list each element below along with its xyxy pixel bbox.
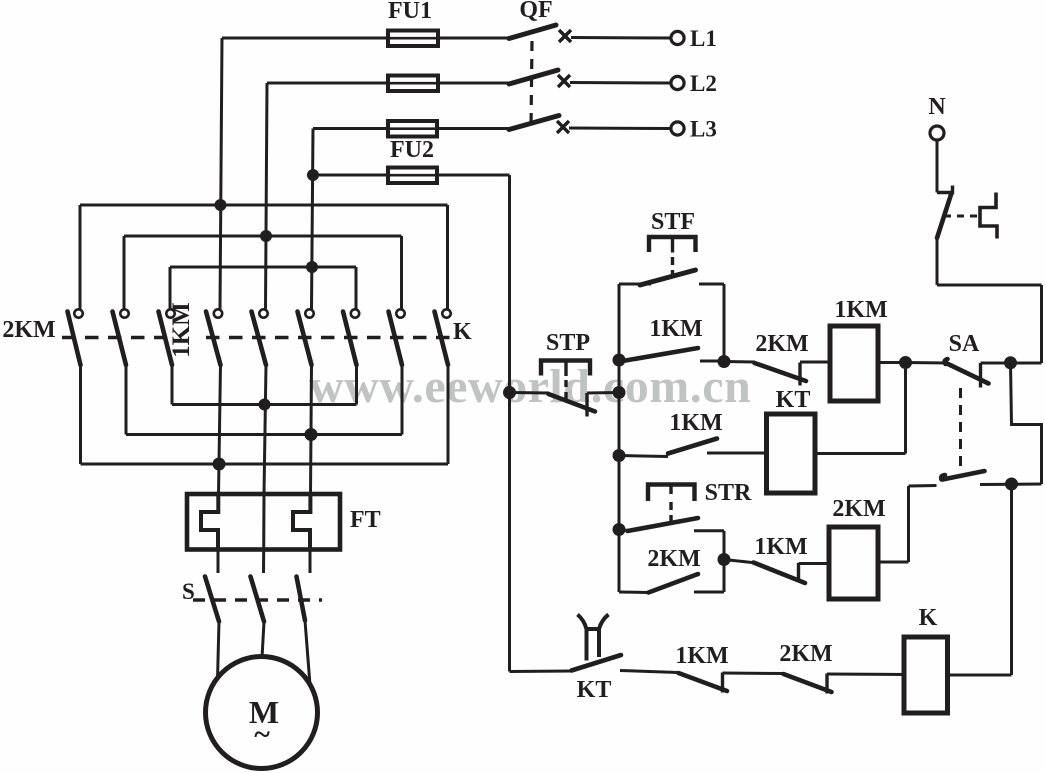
wire line U below FT (217, 550, 220, 574)
wire to 1KM coil (800, 361, 830, 364)
contactor 2KM pole1 (68, 309, 83, 365)
wire N down (936, 140, 939, 193)
svg-text:1KM: 1KM (675, 643, 728, 669)
contactor K pole2 (389, 309, 405, 365)
svg-text:K: K (919, 605, 938, 631)
contactor 2KM pole2 (113, 309, 129, 365)
switch SA pole1 blade (945, 359, 989, 384)
wire STF branch right vertical (723, 284, 726, 362)
switch S pole3 blade (297, 577, 306, 621)
contact 2KM NC blade (K row) (784, 674, 832, 692)
wire phase A vertical upper (220, 38, 222, 309)
wire main row stub after 1KM (700, 360, 724, 363)
contact 1KM NO blade (KT row) (668, 439, 717, 454)
fuse FU1 pole2 (388, 76, 438, 92)
contactor 1KM pole2 (252, 309, 268, 365)
contact KT delayed blade (572, 655, 622, 671)
node STP tap on left rail (503, 386, 516, 399)
wire outer box bottom rail (81, 463, 449, 466)
fuse FU1 pole3 (388, 121, 437, 137)
svg-text:2KM: 2KM (832, 496, 885, 522)
wire L3 to terminal (569, 127, 671, 131)
svg-text:STP: STP (546, 330, 590, 356)
contact 1KM NC interlock stop bar (797, 563, 800, 582)
switch N linkage dashed (944, 215, 978, 218)
wire FU2 row from phase C (313, 174, 387, 177)
wire phase B vertical upper (266, 83, 268, 309)
svg-text:QF: QF (519, 0, 552, 23)
wire SA pole2 right (980, 483, 1042, 487)
node outer rail on line U (213, 458, 226, 471)
wire 2KM pole2 lower (125, 365, 128, 435)
wire KT riser to main row (904, 363, 907, 454)
wire SA pole2 left (909, 484, 937, 488)
svg-text:STF: STF (651, 209, 695, 235)
switch S linkage dashed (193, 598, 322, 601)
svg-text:FU2: FU2 (390, 137, 434, 163)
wire S pole2 to motor (262, 622, 264, 659)
node bus STR row (613, 523, 626, 536)
wire L3 fuse to QF (437, 127, 510, 130)
svg-text:~: ~ (254, 718, 270, 751)
wire 1KM coil to SA (878, 361, 906, 364)
svg-text:K: K (453, 319, 472, 345)
svg-text:STR: STR (705, 480, 752, 506)
motor M circle (206, 657, 318, 769)
button STP NC stop bar (585, 393, 588, 417)
button STR cap (648, 485, 695, 502)
svg-text:www.eeworld.com.cn: www.eeworld.com.cn (309, 360, 751, 413)
node FU2 tap on phase C (307, 169, 319, 181)
button STF plunger solid (671, 239, 674, 253)
svg-text:1KM: 1KM (834, 297, 887, 323)
node middle rail on line W (305, 428, 318, 441)
wire S pole3 to motor (305, 621, 310, 686)
contactor linkage dashed right run (206, 336, 452, 340)
wire 2KM self-hold right vertical (723, 560, 726, 593)
wire KT row from bus (619, 456, 668, 457)
svg-text:SA: SA (949, 331, 980, 357)
wire outer box left edge (79, 205, 82, 309)
FT heater element left (201, 494, 218, 550)
wire control bus vertical (618, 284, 621, 592)
contactor 1KM pole1 (206, 309, 222, 365)
wire L1 fuse to QF (438, 37, 510, 40)
wire K pole1 lower (355, 365, 358, 405)
wire K pole3 lower (447, 365, 450, 464)
button STR NO blade (628, 518, 699, 531)
contact 1KM NC stop bar (K row) (721, 673, 724, 693)
svg-text:S: S (182, 579, 195, 604)
wire 2KM pole3 lower (171, 365, 174, 405)
fuse FU2 (388, 168, 437, 184)
node main row STF join (718, 355, 731, 368)
svg-text:1KM: 1KM (649, 316, 702, 342)
switch S pole2 blade (251, 577, 265, 622)
contactor K pole1 (343, 309, 359, 365)
svg-text:2KM: 2KM (755, 331, 808, 357)
coil K (904, 637, 948, 713)
wire control left rail (508, 175, 511, 672)
wire K row middle (723, 672, 784, 676)
wire K pole2 lower (401, 365, 404, 435)
node phase B on middle rail (260, 230, 272, 242)
wire to 2KM coil (799, 562, 830, 565)
contact 1KM self-hold blade (626, 348, 699, 361)
breaker QF pole1 blade (509, 25, 556, 39)
wire SA pole1 right (981, 362, 1042, 365)
switch N actuator (980, 193, 997, 239)
wire middle box right edge (400, 236, 403, 309)
node SA pole2 K riser (1005, 478, 1018, 491)
wire 2KM coil riser (907, 486, 910, 562)
wire L1 to terminal (571, 36, 671, 40)
contactor 2KM pole3 (159, 309, 175, 365)
wire middle box left edge (123, 236, 126, 309)
wire K riser vertical (1010, 484, 1013, 675)
wire motor line V through FT (262, 494, 265, 550)
wire to K coil (827, 673, 904, 677)
wire N branch right vertical (1040, 285, 1043, 363)
terminal L3 circle (671, 122, 684, 135)
wire STP left (510, 391, 550, 395)
node bus main row (613, 354, 626, 367)
wire S pole1 to motor (218, 622, 220, 681)
wire line V below FT (262, 550, 265, 574)
wire KT coil right (815, 452, 906, 455)
coil KT (767, 414, 816, 493)
wire N branch right (937, 284, 1042, 287)
wire middle box top rail (124, 235, 402, 238)
svg-text:1KM: 1KM (669, 410, 722, 436)
contact 2KM NC stop bar (K row) (825, 674, 828, 694)
wire line W below FT (309, 550, 312, 574)
contact 2KM NC stop bar (798, 363, 801, 386)
breaker QF pole2 blade (509, 70, 558, 84)
switch SA pole2 blade (941, 471, 984, 480)
wire STF branch top left (619, 283, 651, 286)
wire inner box left edge (169, 267, 172, 309)
contact 1KM NC blade (K row) (679, 673, 728, 691)
wire 2KM coil right (878, 561, 909, 564)
button STF plunger dashed (671, 257, 674, 277)
button STR plunger dashed (669, 486, 672, 521)
button STP plunger dashed (564, 380, 567, 400)
svg-text:FT: FT (350, 507, 381, 533)
contactor K pole3 (435, 309, 451, 365)
contact KT delay cup (578, 615, 609, 661)
svg-text:1KM: 1KM (754, 534, 807, 560)
svg-text:N: N (928, 94, 946, 120)
wire inner box bottom rail (172, 403, 357, 406)
wire STR row from bus (619, 530, 628, 531)
wire main row to 2KM contact (724, 360, 755, 364)
coil 2KM (829, 527, 878, 599)
terminal L1 circle (671, 31, 684, 44)
node 2KM coil feed (718, 553, 731, 566)
wire STP right to bus (587, 391, 619, 395)
wire 2KM self-hold right stub (694, 591, 724, 594)
contactor 1KM pole3 (298, 309, 314, 365)
wire inner box right edge (355, 267, 358, 309)
svg-text:1KM: 1KM (168, 302, 195, 358)
node bus STP row (613, 386, 626, 399)
FT heater element right (293, 494, 310, 550)
wire K coil right (948, 674, 1012, 677)
svg-text:KT: KT (776, 387, 811, 413)
node phase C on inner rail (306, 261, 318, 273)
wire L2 fuse to QF (438, 82, 510, 85)
switch SA pole1 stop bar (979, 363, 982, 388)
button STF cap (649, 237, 696, 252)
button STF NO blade (640, 270, 696, 285)
svg-text:FU1: FU1 (388, 0, 432, 24)
button STP cap (541, 361, 590, 376)
wire middle box bottom rail (126, 433, 402, 436)
terminal L2 circle (671, 76, 684, 89)
node main row KT riser (899, 356, 912, 369)
node main row right branch (1004, 356, 1017, 369)
node phase A on outer rail (215, 199, 227, 211)
switch S pole1 blade (205, 577, 219, 622)
wire KT row stub to coil (707, 452, 767, 455)
breaker QF linkage dashed (531, 41, 532, 127)
wire L3 row left (313, 127, 387, 130)
node bus KT row (613, 449, 626, 462)
terminal N circle (930, 126, 944, 140)
wire K row from left rail (510, 670, 573, 674)
wire inner box top rail (170, 266, 356, 269)
wire phase C vertical upper (312, 129, 314, 310)
svg-text:2KM: 2KM (2, 317, 55, 343)
coil 1KM (830, 326, 878, 401)
wire L2 row left (267, 82, 387, 85)
contact 2KM NC blade (755, 363, 807, 381)
svg-text:2KM: 2KM (779, 641, 832, 667)
wire L1 row left (222, 37, 387, 40)
contact 1KM NC interlock blade (754, 563, 806, 584)
contactor linkage dashed left run (62, 336, 165, 340)
wire 2KM self-hold branch left (619, 591, 649, 595)
wire FU2 to control rail (437, 174, 510, 177)
wire N branch down (936, 238, 939, 285)
breaker QF pole2 contact x (558, 75, 570, 87)
switch N blade (937, 193, 952, 238)
wire 1KM pole1 lower / motor line U (219, 365, 221, 494)
button STP NC blade (549, 394, 596, 412)
wire to SA pole1 (906, 361, 948, 365)
wire STR right stub (694, 529, 724, 532)
wire 1KM pole2 lower / motor line V (264, 365, 266, 494)
wire 2KM pole1 lower (79, 365, 82, 464)
wire right jog down (1011, 363, 1042, 484)
node inner rail on line V (259, 399, 271, 411)
svg-text:L2: L2 (690, 71, 717, 96)
wire outer box right edge (446, 205, 449, 309)
wire outer box top rail (80, 204, 448, 207)
wire STR right vertical (723, 531, 726, 560)
fuse FU1 pole1 (388, 31, 438, 47)
thermal relay FT box (187, 494, 340, 550)
wire to 1KM interlock (724, 560, 752, 563)
breaker QF pole3 blade (509, 116, 559, 130)
switch N hinge (937, 186, 953, 193)
breaker QF pole1 contact x (559, 30, 571, 42)
wire L2 to terminal (570, 81, 671, 85)
svg-text:2KM: 2KM (647, 546, 700, 572)
wire K row after KT contact (620, 671, 678, 673)
wire STF branch top right stub (699, 283, 724, 286)
switch SA linkage dashed (959, 388, 962, 468)
breaker QF pole3 contact x (557, 121, 569, 133)
contact 2KM self-hold blade (649, 574, 699, 593)
svg-text:L1: L1 (690, 26, 717, 51)
button STP plunger solid (564, 362, 567, 376)
svg-text:KT: KT (577, 677, 612, 703)
wire 1KM pole3 lower / motor line W (311, 365, 312, 494)
svg-text:L3: L3 (690, 117, 717, 142)
